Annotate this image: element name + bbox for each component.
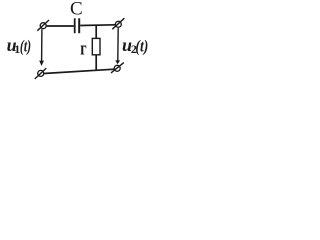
svg-text:(t): (t) [20,36,31,55]
svg-text:(t): (t) [135,36,148,55]
svg-text:C: C [70,0,83,20]
svg-text:г: г [80,38,87,59]
